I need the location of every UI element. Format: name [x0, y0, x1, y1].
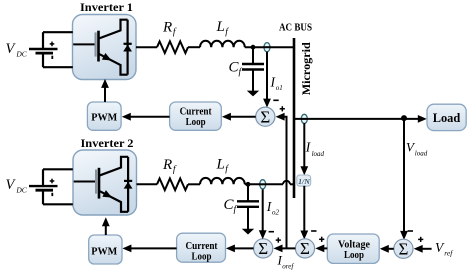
svg-text:DC: DC	[15, 49, 27, 58]
svg-text:ref: ref	[444, 248, 453, 257]
svg-text:Inverter 2: Inverter 2	[81, 136, 134, 150]
svg-text:o1: o1	[276, 84, 283, 92]
svg-text:1/N: 1/N	[298, 177, 310, 186]
svg-text:Σ: Σ	[258, 239, 268, 258]
svg-text:PWM: PWM	[91, 111, 118, 123]
svg-text:DC: DC	[15, 186, 27, 195]
svg-text:Microgrid: Microgrid	[301, 42, 313, 96]
svg-text:PWM: PWM	[91, 246, 118, 258]
svg-text:R: R	[162, 20, 172, 36]
svg-text:Inverter 1: Inverter 1	[80, 0, 133, 14]
svg-text:Loop: Loop	[344, 249, 364, 261]
svg-text:AC BUS: AC BUS	[279, 23, 312, 34]
svg-text:Load: Load	[433, 111, 461, 125]
svg-text:Loop: Loop	[186, 116, 206, 128]
svg-text:R: R	[162, 157, 172, 173]
svg-text:load: load	[415, 149, 428, 157]
svg-text:Σ: Σ	[398, 240, 408, 259]
svg-text:Loop: Loop	[192, 250, 212, 262]
svg-text:Σ: Σ	[260, 108, 270, 127]
svg-text:Σ: Σ	[300, 239, 310, 258]
svg-text:L: L	[216, 156, 225, 172]
svg-text:L: L	[216, 19, 225, 35]
svg-text:o2: o2	[272, 209, 280, 217]
svg-text:oref: oref	[282, 263, 294, 271]
svg-text:load: load	[312, 150, 325, 158]
